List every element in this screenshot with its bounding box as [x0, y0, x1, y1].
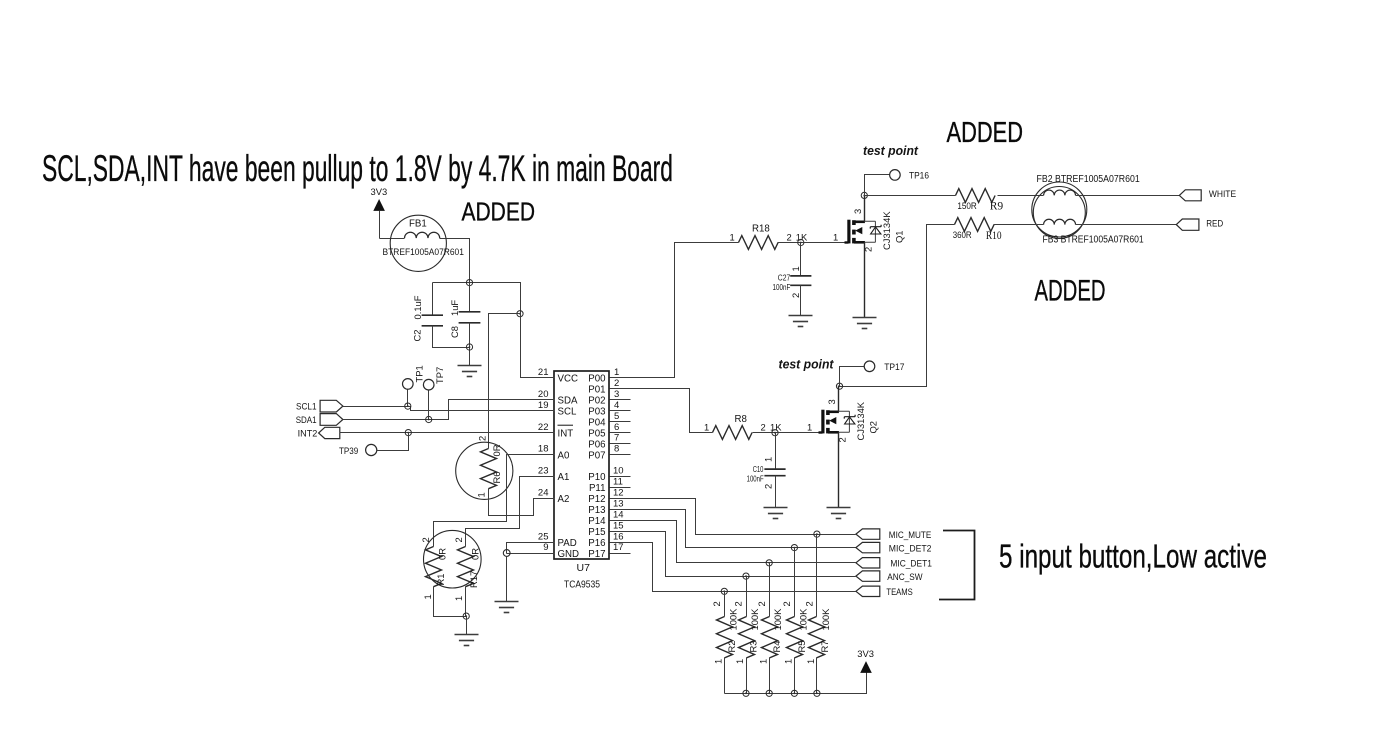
transistor Q1 CJ3134K [802, 196, 882, 318]
U7 right pin numbers [613, 367, 624, 553]
svg-text:1: 1 [713, 659, 724, 664]
svg-text:1: 1 [833, 232, 838, 243]
junction rail R4 [766, 690, 772, 696]
svg-text:2: 2 [837, 437, 848, 442]
port flag TEAMS [856, 586, 880, 596]
wire R17 bottom to junction [465, 587, 467, 617]
port flag RED [1176, 219, 1199, 230]
svg-text:A1: A1 [558, 472, 570, 483]
junction TEAMS/R2 [721, 588, 727, 594]
svg-text:P05: P05 [588, 428, 605, 439]
svg-text:BTREF1005A07R601: BTREF1005A07R601 [383, 246, 464, 257]
svg-text:ADDED: ADDED [947, 117, 1024, 149]
junction Q1 drain node [861, 192, 867, 198]
svg-text:PAD: PAD [558, 538, 577, 549]
svg-text:MIC_MUTE: MIC_MUTE [889, 529, 932, 540]
svg-text:11: 11 [613, 477, 623, 488]
svg-text:TP17: TP17 [884, 361, 904, 372]
junction MIC_DET2/R5 [791, 545, 797, 551]
wire R18 to gate node [778, 242, 801, 244]
svg-text:P10: P10 [588, 472, 606, 483]
svg-text:1: 1 [805, 659, 816, 664]
wire junction down to ground [466, 617, 468, 635]
svg-text:13: 13 [613, 498, 624, 509]
wire R4 bottom to rail [769, 658, 771, 694]
svg-text:P00: P00 [588, 374, 606, 385]
svg-text:0R: 0R [437, 548, 448, 560]
wire MIC_MUTE junction to R7 [816, 535, 818, 617]
wire FB2 to WHITE flag [1076, 195, 1180, 197]
svg-text:MIC_DET1: MIC_DET1 [890, 558, 932, 569]
svg-text:1: 1 [763, 457, 774, 462]
svg-text:FB2 BTREF1005A07R601: FB2 BTREF1005A07R601 [1037, 174, 1140, 185]
wire ANC_SW junction to R3 [746, 577, 748, 617]
junction R1/R17 gnd [463, 613, 469, 619]
svg-text:2: 2 [756, 601, 767, 606]
svg-text:0R: 0R [491, 444, 502, 456]
svg-text:100K: 100K [749, 608, 760, 631]
test pad TP16 [890, 170, 901, 181]
resistor R18 1K [739, 236, 779, 250]
svg-text:R1: R1 [435, 574, 446, 586]
svg-text:2: 2 [477, 436, 488, 441]
svg-text:R2: R2 [726, 641, 737, 653]
svg-text:TEAMS: TEAMS [886, 586, 912, 597]
svg-text:P03: P03 [588, 407, 605, 418]
wire P01 to R8 [610, 389, 713, 433]
test pad TP39 [366, 433, 409, 456]
resistor R17 (0R) [458, 547, 474, 587]
svg-text:16: 16 [613, 531, 624, 542]
wire SCL1 to SCL pin [343, 407, 555, 411]
capacitor C2 [422, 283, 470, 348]
svg-text:A2: A2 [558, 494, 570, 505]
wire R9 to FB2 [998, 195, 1044, 197]
junction SCL1/TP1 [405, 403, 411, 409]
svg-text:P14: P14 [588, 516, 606, 527]
svg-text:R8: R8 [735, 414, 747, 425]
wire R10 row corner to Q2 drain [840, 225, 955, 387]
svg-text:2: 2 [787, 231, 792, 242]
svg-text:3V3: 3V3 [371, 186, 388, 197]
wire A0 to R1 feed [434, 455, 555, 547]
resistor R8 1K [713, 426, 753, 440]
wire FB1 to node [447, 239, 470, 283]
resistor R5 100K [787, 617, 803, 658]
svg-text:150R: 150R [957, 200, 977, 211]
junction ANC_SW/R3 [743, 573, 749, 579]
svg-text:100nF: 100nF [747, 474, 764, 483]
junction R8/C10/Q2 gate [772, 430, 778, 436]
svg-text:R6: R6 [491, 472, 502, 484]
svg-text:21: 21 [538, 367, 549, 378]
svg-text:R9: R9 [990, 199, 1004, 213]
svg-text:TP7: TP7 [434, 367, 445, 384]
ground below C8 [458, 366, 482, 377]
wire MIC_DET1 junction to R4 [769, 563, 771, 617]
ground below C10 [764, 508, 788, 519]
svg-text:P13: P13 [588, 505, 605, 516]
port flag MIC_MUTE [856, 529, 880, 539]
junction rail R7 [814, 690, 820, 696]
svg-text:100K: 100K [772, 608, 783, 631]
wire A1 to R17 feed [466, 477, 555, 547]
svg-text:4: 4 [614, 400, 619, 411]
svg-text:25: 25 [538, 531, 549, 542]
svg-text:2: 2 [763, 484, 774, 489]
svg-text:2: 2 [453, 537, 464, 542]
svg-text:A0: A0 [558, 450, 570, 461]
svg-text:2: 2 [614, 378, 619, 389]
test pad TP1 [403, 379, 414, 407]
svg-text:1uF: 1uF [449, 300, 460, 316]
resistor R6 (0R, in circle) [456, 442, 513, 499]
svg-text:C2: C2 [412, 330, 423, 342]
resistor R7 100K [809, 617, 825, 658]
wire P16 to TEAMS row [610, 543, 856, 592]
junction INT2/TP39 [405, 430, 411, 436]
wire SDA1 to SDA pin [343, 400, 555, 420]
svg-text:R7: R7 [819, 641, 830, 653]
wire R1 bottom to junction [434, 587, 467, 617]
svg-text:8: 8 [614, 444, 619, 455]
transistor Q2 CJ3134K [776, 386, 856, 508]
svg-text:VCC: VCC [558, 374, 578, 385]
junction MIC_DET1/R4 [766, 560, 772, 566]
svg-text:2: 2 [781, 601, 792, 606]
svg-text:test point: test point [779, 357, 835, 371]
svg-text:1: 1 [422, 594, 433, 599]
svg-text:100K: 100K [727, 608, 738, 631]
svg-text:P16: P16 [588, 538, 605, 549]
svg-text:INT2: INT2 [298, 428, 318, 439]
svg-text:2: 2 [863, 247, 874, 252]
svg-text:FB1: FB1 [409, 219, 427, 230]
junction C2/C8 bottom [466, 344, 472, 350]
svg-text:P06: P06 [588, 439, 605, 450]
svg-text:1: 1 [734, 659, 745, 664]
svg-text:ADDED: ADDED [462, 199, 536, 227]
svg-text:ANC_SW: ANC_SW [887, 571, 922, 582]
svg-text:TP1: TP1 [414, 365, 425, 382]
ground below PAD/GND [495, 602, 519, 613]
resistor R2 100K [717, 617, 733, 658]
svg-text:TP39: TP39 [339, 445, 358, 456]
svg-text:1: 1 [790, 266, 801, 271]
port flag MIC_DET2 [856, 542, 880, 552]
svg-text:C10: C10 [753, 465, 764, 474]
svg-text:R17: R17 [468, 571, 479, 588]
svg-text:Q1: Q1 [894, 230, 905, 243]
wire R6 pin1 to A2 [489, 489, 555, 516]
svg-text:P02: P02 [588, 396, 605, 407]
svg-text:1: 1 [807, 422, 812, 433]
wire node row to VCC corner [433, 283, 521, 314]
svg-text:P04: P04 [588, 417, 606, 428]
svg-text:1: 1 [783, 659, 794, 664]
svg-text:6: 6 [614, 422, 619, 433]
svg-text:10: 10 [613, 466, 624, 477]
svg-text:1K: 1K [796, 231, 808, 242]
junction Q2 drain node [836, 383, 842, 389]
svg-text:15: 15 [613, 520, 624, 531]
svg-text:GND: GND [558, 549, 580, 560]
ferrite bead FB3 [1033, 187, 1085, 239]
svg-text:7: 7 [614, 433, 619, 444]
svg-text:1: 1 [614, 367, 619, 378]
svg-text:SCL1: SCL1 [296, 401, 317, 412]
svg-text:1: 1 [704, 422, 709, 433]
wire R5 bottom to rail [794, 658, 796, 694]
svg-text:R3: R3 [748, 641, 759, 653]
wire R3 bottom to rail [746, 658, 748, 694]
svg-text:1K: 1K [770, 422, 782, 433]
svg-text:360R: 360R [953, 229, 972, 240]
svg-text:3: 3 [614, 389, 619, 400]
svg-text:SCL,SDA,INT have been pullup t: SCL,SDA,INT have been pullup to 1.8V by … [42, 147, 673, 189]
wire PAD to GND node [507, 543, 555, 554]
svg-text:100K: 100K [820, 608, 831, 631]
bracket for 5 input buttons [939, 531, 975, 600]
svg-text:R5: R5 [796, 641, 807, 653]
svg-text:17: 17 [613, 542, 624, 553]
svg-text:2: 2 [804, 601, 815, 606]
U7 right pin names [588, 374, 606, 560]
svg-text:2: 2 [790, 293, 801, 298]
svg-text:FB3 BTREF1005A07R601: FB3 BTREF1005A07R601 [1043, 235, 1144, 246]
svg-text:14: 14 [613, 509, 624, 520]
svg-text:R10: R10 [986, 228, 1002, 242]
wire node to ground [506, 553, 508, 602]
wire FB3 to RED flag [1076, 224, 1177, 226]
wire P13 to MIC_DET2 row [610, 510, 856, 548]
power 3V3 top arrow [373, 199, 385, 239]
resistor R1 (0R) [426, 547, 442, 587]
resistors R1/R17 circle [424, 530, 482, 588]
svg-text:R4: R4 [771, 641, 782, 653]
junction MIC_MUTE/R7 [814, 531, 820, 537]
wire TEAMS junction to R2 [724, 592, 726, 617]
svg-text:P07: P07 [588, 450, 605, 461]
svg-text:SDA: SDA [558, 396, 578, 407]
wire P00 to R18 [610, 243, 739, 378]
ground below R1/R17 [455, 635, 479, 646]
svg-text:P17: P17 [588, 549, 605, 560]
svg-text:RED: RED [1206, 217, 1223, 228]
svg-text:INT: INT [558, 428, 574, 439]
svg-text:MIC_DET2: MIC_DET2 [889, 542, 932, 553]
test pad TP7 [423, 379, 434, 419]
svg-text:3V3: 3V3 [857, 648, 874, 659]
PAD/GND node circle [503, 550, 510, 557]
ground below C27 [789, 316, 813, 327]
svg-text:1: 1 [730, 232, 735, 243]
svg-text:0.1uF: 0.1uF [412, 295, 423, 319]
svg-text:SDA1: SDA1 [296, 414, 317, 425]
svg-text:P01: P01 [588, 385, 605, 396]
svg-text:U7: U7 [577, 562, 591, 574]
svg-text:P12: P12 [588, 494, 605, 505]
svg-text:5: 5 [614, 411, 619, 422]
wire 3V3 to FB1 [380, 238, 405, 240]
svg-text:18: 18 [538, 444, 549, 455]
svg-text:1: 1 [453, 596, 464, 601]
wire R2 bottom to rail [724, 658, 726, 694]
wire drain node to R9 [865, 195, 956, 197]
svg-text:12: 12 [613, 488, 624, 499]
resistor R9 150R [956, 189, 996, 203]
wire R8 to gate node [753, 432, 776, 434]
svg-text:1: 1 [476, 492, 487, 497]
svg-text:TP16: TP16 [909, 170, 929, 181]
svg-text:100nF: 100nF [773, 283, 791, 292]
test pad TP17 [864, 361, 875, 372]
svg-text:0R: 0R [470, 548, 481, 560]
bottom rail wire to 3V3 [725, 673, 867, 694]
ferrite bead FB2 [1032, 182, 1087, 237]
wire R7 bottom to rail [816, 658, 818, 694]
svg-text:P15: P15 [588, 527, 605, 538]
svg-text:20: 20 [538, 389, 549, 400]
junction rail R3 [743, 690, 749, 696]
svg-text:2: 2 [420, 537, 431, 542]
power 3V3 arrow bottom [860, 661, 872, 673]
capacitor C10 [764, 433, 785, 508]
U7 left pin names [558, 374, 580, 560]
wire VCC node down to pin 21 [521, 314, 555, 378]
wire INT2 to INT pin [340, 432, 555, 434]
capacitor C27 [790, 243, 811, 316]
svg-text:24: 24 [538, 488, 549, 499]
svg-text:SCL: SCL [558, 407, 577, 418]
svg-text:22: 22 [538, 422, 549, 433]
U7 left pin numbers [538, 367, 549, 553]
ferrite bead FB1 [390, 215, 446, 271]
svg-text:test point: test point [863, 144, 919, 158]
svg-text:TCA9535: TCA9535 [564, 579, 600, 591]
wire GND pin to node circle [507, 553, 555, 555]
ground below Q2 source [827, 508, 851, 519]
svg-text:2: 2 [733, 601, 744, 606]
junction rail R5 [791, 690, 797, 696]
resistor R4 100K [762, 617, 778, 658]
svg-text:CJ3134K: CJ3134K [855, 401, 866, 440]
svg-text:5 input button,Low active: 5 input button,Low active [999, 538, 1267, 575]
resistor R3 100K [739, 617, 755, 658]
wire Q2 drain node up to TP17 [840, 367, 865, 387]
svg-text:23: 23 [538, 466, 549, 477]
ground below Q1 source [853, 318, 877, 329]
node A junction (FB1/C2/C8) [466, 280, 472, 286]
wire P15 to ANC_SW row [610, 532, 856, 577]
port flag SCL1 [320, 400, 343, 412]
U7 short unconnected pin stubs right: P02-P07, P10, P11, P17 [610, 400, 631, 554]
svg-text:19: 19 [538, 400, 549, 411]
port flag ANC_SW [856, 571, 880, 581]
capacitor C8 [459, 283, 481, 366]
wire P14 to MIC_DET1 row [610, 521, 856, 563]
svg-text:CJ3134K: CJ3134K [881, 211, 892, 250]
svg-text:2: 2 [761, 422, 766, 433]
wire Q1 drain node up to TP16 [865, 175, 890, 196]
svg-text:3: 3 [826, 399, 837, 404]
svg-text:C8: C8 [449, 326, 460, 338]
wire MIC_DET2 junction to R5 [794, 548, 796, 617]
op-amp/IC U7 TCA9535 body [554, 371, 609, 559]
svg-text:Q2: Q2 [868, 421, 879, 434]
port flag WHITE [1179, 190, 1201, 201]
junction SDA1/TP7 [426, 416, 432, 422]
svg-text:R18: R18 [752, 224, 770, 235]
wire R10 to FB3 [994, 224, 1044, 226]
port flag INT2 [319, 427, 340, 438]
svg-text:2: 2 [711, 601, 722, 606]
svg-text:1: 1 [757, 659, 768, 664]
node VCC junction [517, 311, 523, 317]
svg-text:C27: C27 [778, 274, 791, 283]
svg-text:WHITE: WHITE [1209, 188, 1236, 199]
wire node to R6 top feed [489, 314, 521, 449]
port flag SDA1 [320, 414, 343, 426]
svg-text:ADDED: ADDED [1035, 274, 1106, 307]
resistor R10 360R [955, 218, 995, 232]
svg-text:9: 9 [543, 542, 548, 553]
svg-text:P11: P11 [589, 483, 606, 494]
svg-text:100K: 100K [797, 608, 808, 631]
junction R18/C27/Q1 gate [798, 239, 804, 245]
port flag MIC_DET1 [856, 558, 880, 568]
wire P12 to MIC_MUTE row [610, 499, 856, 535]
svg-text:3: 3 [852, 209, 863, 214]
